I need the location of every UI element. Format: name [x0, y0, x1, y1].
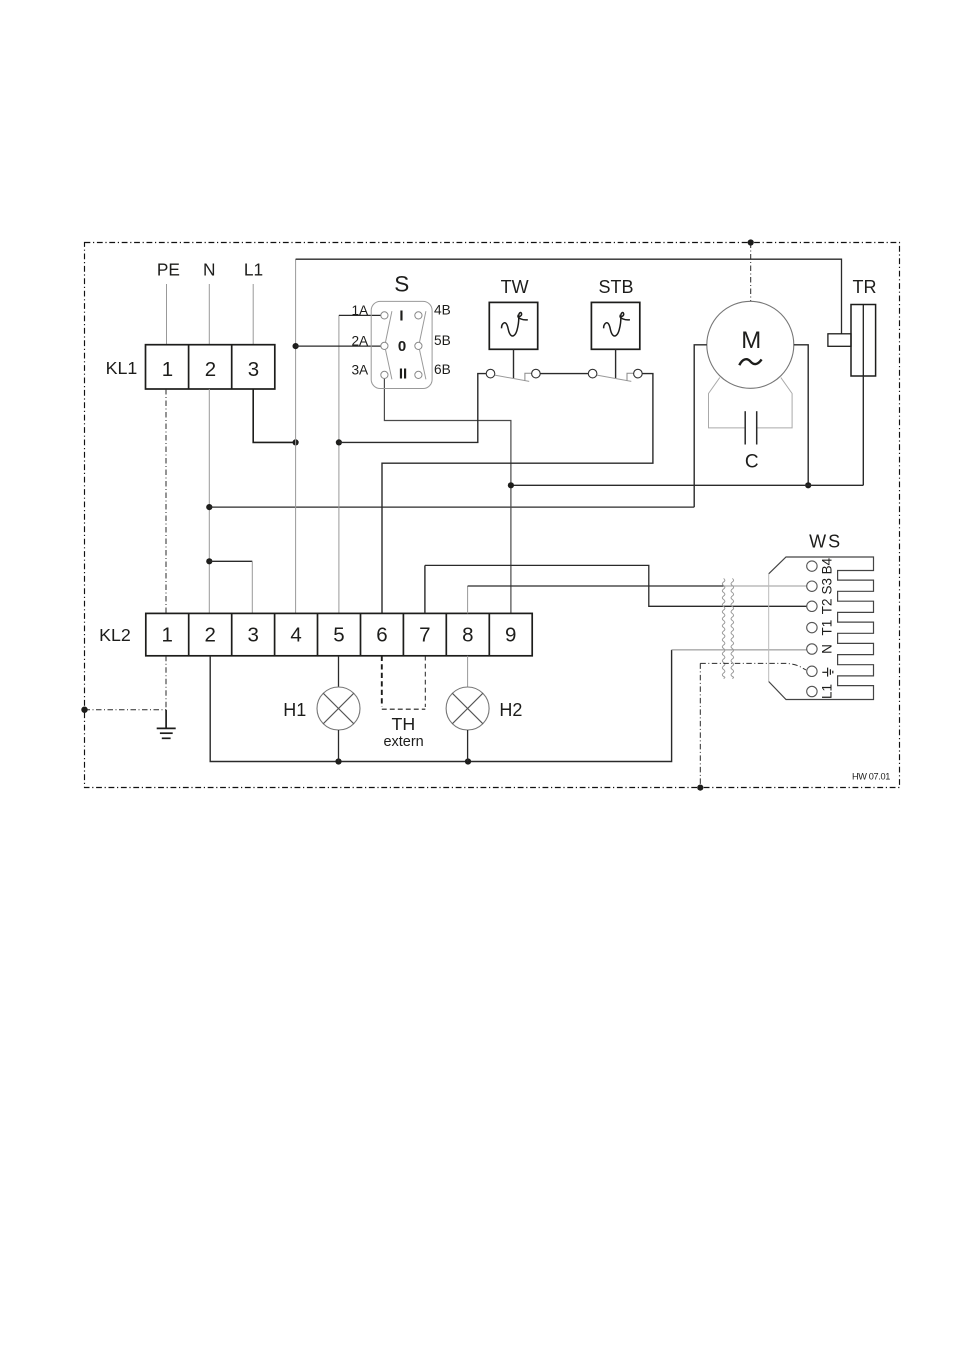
svg-text:PE: PE: [157, 260, 180, 280]
connector WS pin N: [807, 644, 817, 654]
switch S wiper A lower: [386, 350, 392, 380]
svg-text:4B: 4B: [434, 303, 451, 318]
wire motor left tap to N wire: [694, 345, 707, 507]
wire riser to KL2.4 / TR feed: [295, 259, 297, 613]
wire KL2.7 riser: [424, 565, 426, 613]
switch S pin 1A: [381, 312, 388, 319]
chassis boundary (dash-dot frame): [85, 243, 900, 788]
svg-text:5: 5: [333, 624, 344, 647]
wire L1 stub: [252, 284, 254, 345]
wire boundary dash-dot to ground: [85, 709, 167, 711]
cable squiggle right: [731, 579, 734, 679]
contact STB blade: [597, 375, 631, 381]
svg-text:extern: extern: [383, 734, 423, 750]
wire KL2.8 to H2: [467, 656, 469, 687]
contact STB terminal right: [634, 369, 643, 378]
connector WS pin B4: [807, 561, 817, 571]
junction H1/bus: [335, 758, 341, 764]
svg-text:I: I: [399, 308, 403, 325]
contact STB stub: [627, 373, 634, 381]
wire motor aux winding left: [709, 378, 746, 428]
junction motor right/line wire: [805, 482, 811, 488]
svg-text:TH: TH: [392, 714, 416, 734]
wire KL2.5 to H1: [338, 656, 340, 687]
connector WS pin T1: [807, 622, 817, 632]
wire H2 to bus: [467, 730, 469, 762]
contact STB terminal left: [588, 369, 597, 378]
wire PE stub: [166, 284, 168, 345]
wire line bus KL2.9 to TR: [511, 484, 863, 486]
thermostat TW curve: [502, 313, 528, 336]
contact TW stub: [525, 373, 532, 381]
contact TW blade: [495, 375, 529, 381]
capacitor C plate right: [756, 411, 758, 444]
wire switch pin 2A: [296, 345, 381, 347]
wire KL2.1 dash-dot to ground: [165, 656, 167, 710]
wire N stub: [208, 284, 210, 345]
svg-text:C: C: [745, 451, 759, 472]
wire between contacts: [540, 373, 588, 375]
svg-text:KL1: KL1: [106, 358, 138, 378]
wire KL2.7 to WS T2: [425, 565, 807, 606]
svg-text:L1: L1: [820, 684, 835, 699]
svg-text:3: 3: [248, 358, 259, 381]
wire contact feed from left down to junction: [339, 374, 486, 443]
wire KL2.8 to WS S3: [468, 585, 724, 587]
svg-text:1: 1: [161, 624, 172, 647]
wire motor aux winding right: [757, 378, 792, 428]
svg-text:N: N: [820, 644, 835, 654]
wire switch pin 3A to KL2.9: [384, 379, 511, 614]
wire riser to KL2.5: [338, 315, 340, 613]
cable squiggle left: [722, 579, 725, 679]
thermostat STB curve: [604, 313, 630, 336]
switch S pin 2A: [381, 342, 388, 349]
wire top feed to TR: [296, 259, 842, 334]
junction H2/bus: [465, 758, 471, 764]
connector WS pin earth: [807, 666, 817, 676]
thermostat STB box: [591, 302, 639, 349]
wire WS earth dash-dot riser: [699, 663, 701, 787]
switch S wiper A upper: [386, 311, 392, 342]
contact TW terminal left: [486, 369, 495, 378]
wire motor frame dash-dot to boundary: [750, 243, 752, 302]
wire N to KL2.3 jog: [209, 560, 252, 562]
junction on left boundary: [81, 707, 87, 713]
wire WS earth dash-dot: [700, 663, 806, 670]
lamp H2: [446, 687, 489, 730]
junction riser5/TW-contact wire: [336, 439, 342, 445]
svg-text:2A: 2A: [351, 333, 369, 348]
switch S body: [371, 301, 432, 388]
wire TR bottom: [862, 376, 864, 485]
junction N/motor wire: [206, 504, 212, 510]
pin earth glyph: [822, 668, 833, 677]
thermostat TH extern dashed link right: [424, 656, 426, 707]
svg-text:TW: TW: [501, 277, 529, 297]
thermostat TH extern dashed link bottom: [382, 708, 426, 710]
ground symbol: [157, 710, 176, 739]
svg-text:3A: 3A: [351, 362, 369, 377]
motor AC tilde: [739, 359, 761, 365]
svg-text:T1: T1: [820, 620, 835, 636]
svg-text:2: 2: [205, 358, 216, 381]
junction KL2.9 riser/line bus: [508, 482, 514, 488]
svg-text:9: 9: [505, 624, 516, 647]
junction on boundary (motor PE): [748, 239, 754, 245]
wire KL2.8 riser: [467, 586, 469, 613]
thermostat TW box: [489, 302, 537, 349]
svg-text:T2: T2: [820, 598, 835, 614]
motor M1 body: [707, 301, 794, 388]
svg-text:6: 6: [376, 624, 387, 647]
wire KL2.2 to lamp bus: [210, 650, 671, 762]
svg-text:H2: H2: [499, 700, 522, 720]
wire switch pin 1A: [339, 314, 381, 316]
switch S wiper B lower: [420, 350, 426, 380]
wire L1 from KL1.3: [253, 389, 295, 442]
svg-text:4: 4: [290, 624, 301, 647]
connector WS body: [769, 557, 874, 700]
svg-text:L1: L1: [244, 260, 263, 280]
terminal block KL1: [146, 345, 275, 389]
junction riser/switch 2A: [293, 343, 299, 349]
svg-text:KL2: KL2: [99, 625, 131, 645]
svg-text:H1: H1: [283, 700, 306, 720]
wire N to motor (horizontal): [209, 506, 694, 508]
connector WS pin S3: [807, 581, 817, 591]
svg-text:2: 2: [204, 624, 215, 647]
svg-text:S3: S3: [820, 578, 835, 595]
junction N/KL2.3: [206, 558, 212, 564]
contact TW terminal right: [532, 369, 541, 378]
lamp H1: [317, 687, 360, 730]
svg-text:7: 7: [419, 624, 430, 647]
wire lamp bus to WS N: [672, 649, 807, 651]
switch S wiper B upper: [420, 311, 426, 342]
connector WS pin T2: [807, 601, 817, 611]
svg-text:3: 3: [247, 624, 258, 647]
wire N column KL1.2 to KL2.2: [208, 389, 210, 613]
svg-text:HW 07.01: HW 07.01: [852, 771, 890, 781]
connector WS pin L1: [807, 686, 817, 696]
wire motor right tap: [794, 345, 808, 486]
wire PE dash-dot KL1.1 to KL2.1: [165, 389, 167, 613]
switch S pin 5B: [415, 342, 422, 349]
switch S pin 6B: [415, 371, 422, 378]
switch S pin 4B: [415, 312, 422, 319]
wire TW to contact: [513, 349, 515, 378]
wire contact out to KL2.6: [382, 374, 653, 614]
switch S pin 3A: [381, 371, 388, 378]
svg-text:TR: TR: [853, 277, 877, 297]
thermostat TH extern dashed link left: [381, 656, 383, 707]
svg-text:B4: B4: [820, 557, 835, 574]
svg-text:WS: WS: [809, 532, 842, 552]
svg-text:8: 8: [462, 624, 473, 647]
svg-text:STB: STB: [598, 277, 633, 297]
svg-text:0: 0: [398, 338, 406, 355]
svg-text:6B: 6B: [434, 362, 451, 377]
junction L1/pin4 riser: [293, 439, 299, 445]
svg-text:1: 1: [162, 358, 173, 381]
svg-text:II: II: [399, 366, 407, 383]
junction on bottom boundary: [697, 785, 703, 791]
svg-text:1A: 1A: [351, 303, 369, 318]
svg-text:N: N: [203, 260, 215, 280]
svg-text:S: S: [394, 271, 409, 296]
svg-text:5B: 5B: [434, 333, 451, 348]
transformer TR body: [828, 305, 876, 377]
svg-text:M: M: [741, 327, 761, 354]
wire H1 to bus: [338, 730, 340, 762]
terminal block KL2: [146, 613, 532, 655]
wire STB to contact: [615, 349, 617, 378]
capacitor C plate left: [744, 411, 746, 444]
